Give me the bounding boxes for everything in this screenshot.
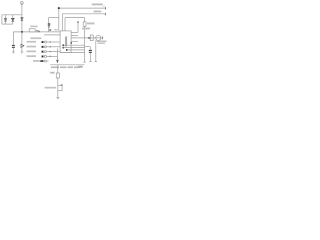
wire left rail (1, 15, 3, 24)
buzzer return wire (95, 40, 97, 61)
pin tick A (105, 7, 107, 9)
pin row 2 (27, 46, 61, 48)
pin row 3 (27, 51, 61, 53)
capacitor C3 (89, 47, 92, 62)
ground C3 (89, 61, 92, 63)
buzzer text 1 (97, 41, 107, 43)
resistor R3 label (50, 72, 54, 74)
wire Q1 emitter (57, 91, 59, 98)
junction dot bus/VCC (21, 31, 23, 33)
junction dot buzzer (88, 37, 90, 39)
diode D4 (21, 32, 24, 52)
resistor R1 (29, 29, 35, 32)
caption rule (50, 64, 84, 66)
crystal stub (77, 22, 79, 33)
pin row 5 (33, 60, 49, 62)
wire VCC vertical (21, 4, 23, 32)
IC U1 refdes vertical (65, 37, 67, 47)
resistor R1 label (30, 26, 38, 28)
buzzer line (71, 37, 103, 39)
right pin stub 2 (71, 34, 78, 36)
wire top rail (2, 14, 22, 16)
right pin stub 1 (71, 31, 78, 33)
capacitor C1 (12, 32, 15, 52)
staircase wire 1 (63, 44, 85, 46)
ground buzzer (95, 61, 97, 63)
cap branch wire (85, 46, 91, 48)
buzzer coupling box (90, 35, 93, 41)
wire pin row 0 (44, 34, 60, 36)
power symbol VCC (21, 2, 24, 5)
ground Q1 (56, 97, 59, 98)
transistor Q1 (58, 85, 63, 91)
pin row 4 (27, 55, 58, 57)
caption text (51, 67, 59, 69)
emitter wire (56, 48, 58, 60)
resistor R3 (56, 73, 59, 78)
pin tick B (105, 13, 107, 15)
emitter arrow (56, 60, 58, 63)
junction dot bus top (49, 29, 51, 31)
resistor R2 label (87, 23, 95, 25)
net label A (92, 4, 103, 6)
staircase wire 2 (63, 47, 85, 49)
wire C (65, 18, 85, 31)
transistor Q1 label (45, 87, 57, 89)
IC U1 (60, 31, 71, 53)
bottom branch wire (57, 65, 59, 73)
bottom wire to bus (60, 52, 85, 54)
net label B (94, 11, 102, 13)
pin row 1 (27, 41, 61, 43)
wire A (59, 8, 106, 31)
buzzer label (82, 28, 90, 30)
LED D2 (11, 15, 14, 24)
staircase wire 3 (66, 49, 85, 51)
ground D4 (21, 52, 24, 53)
wire B (62, 14, 105, 31)
buzzer circle (96, 35, 101, 40)
ground net label (78, 66, 83, 68)
ground R2 (83, 61, 85, 63)
pin label row 0 (30, 37, 41, 39)
pushbutton S1 (48, 18, 59, 32)
buzzer text 2 (98, 43, 105, 44)
junction wire A (58, 7, 60, 9)
resistor R1 value (36, 30, 37, 31)
resistor R2 (83, 18, 86, 62)
wire supply bus (13, 31, 60, 33)
diode D3 (21, 18, 23, 21)
wire bottom rail (2, 23, 13, 25)
wire R3 to Q1 (57, 78, 59, 85)
ground C1 (12, 52, 15, 53)
buzzer terminal (102, 37, 104, 40)
IC pin mark (70, 42, 72, 43)
diode D1 (4, 15, 6, 24)
right pin stub 3 (71, 40, 78, 42)
bus net label (54, 29, 57, 30)
